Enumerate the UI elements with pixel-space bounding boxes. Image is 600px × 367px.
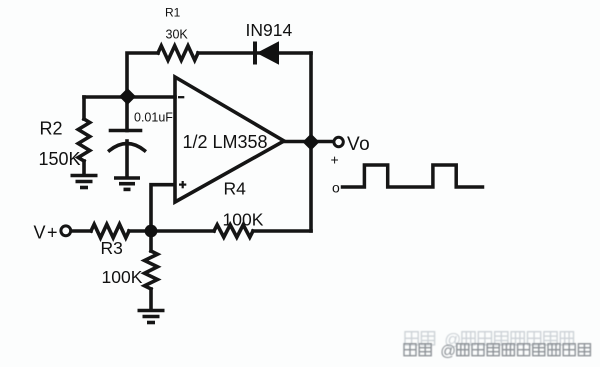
svg-text:o: o bbox=[332, 180, 340, 196]
svg-text:R3: R3 bbox=[101, 238, 123, 258]
svg-text:30K: 30K bbox=[166, 28, 189, 42]
svg-text:R1: R1 bbox=[165, 6, 181, 20]
svg-text:Vo: Vo bbox=[347, 134, 370, 155]
svg-text:IN914: IN914 bbox=[246, 20, 293, 40]
svg-text:0.01uF: 0.01uF bbox=[134, 111, 173, 125]
svg-text:V+: V+ bbox=[34, 223, 60, 243]
svg-text:+: + bbox=[331, 152, 339, 168]
svg-text:1/2 LM358: 1/2 LM358 bbox=[183, 132, 268, 152]
svg-text:100K: 100K bbox=[223, 210, 264, 230]
svg-text:R4: R4 bbox=[224, 179, 247, 199]
svg-text:@: @ bbox=[440, 343, 456, 360]
svg-text:100K: 100K bbox=[102, 267, 143, 287]
svg-text:150K: 150K bbox=[39, 149, 81, 169]
svg-text:R2: R2 bbox=[40, 119, 63, 139]
